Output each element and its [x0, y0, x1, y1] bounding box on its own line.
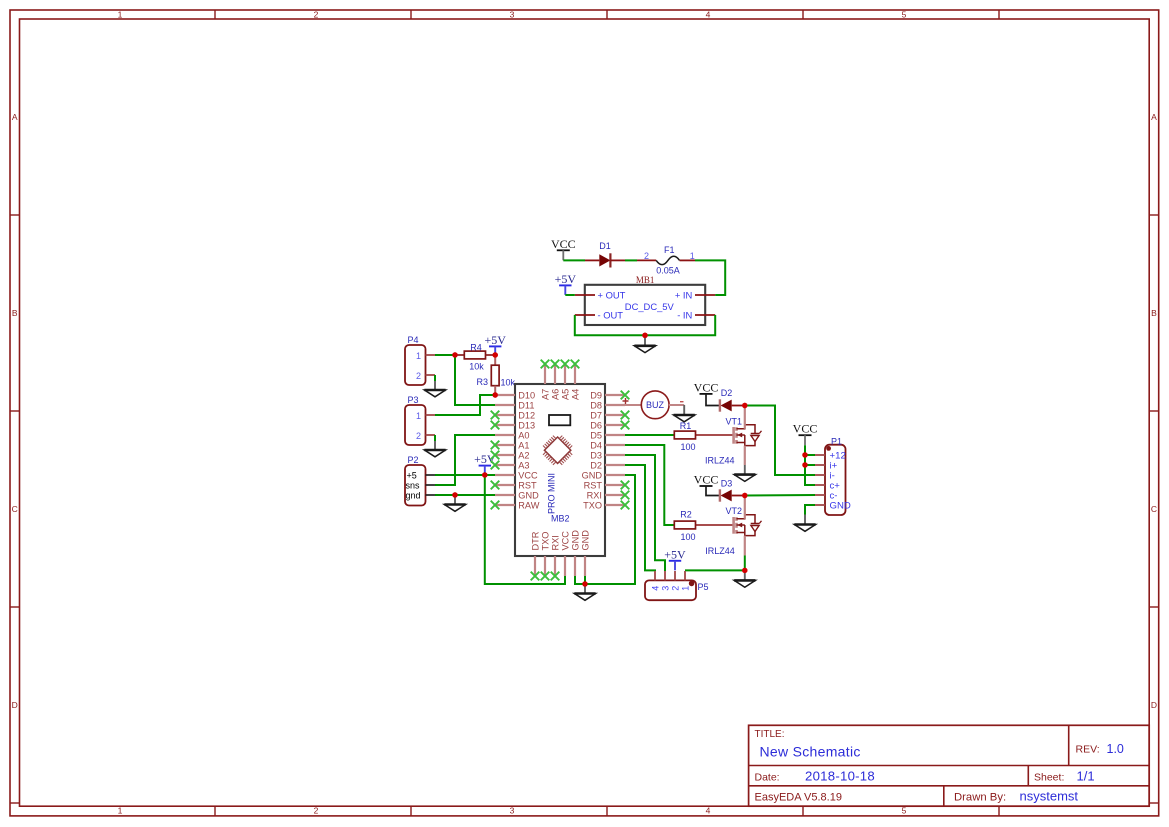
pin D2 of MB2 (right): [590, 461, 625, 471]
frame column numbers top: [118, 10, 907, 20]
svg-text:RST: RST: [518, 481, 537, 491]
ground below VT2 source: [734, 570, 755, 587]
fuse F1: [637, 256, 695, 264]
svg-text:RST: RST: [584, 481, 603, 491]
junction D2 cathode VT1 drain: [742, 403, 747, 408]
svg-text:5: 5: [902, 10, 907, 20]
ground below VT1: [734, 465, 755, 481]
pin +OUT of MB1: [575, 294, 595, 296]
wire VCC node to +12: [805, 454, 815, 456]
svg-text:VCC: VCC: [561, 531, 571, 551]
svg-text:P2: P2: [408, 455, 419, 465]
svg-text:3: 3: [510, 806, 515, 816]
svg-text:TXO: TXO: [583, 501, 602, 511]
VT2 drain lead: [744, 496, 746, 519]
svg-text:VT1: VT1: [726, 416, 743, 426]
svg-text:D8: D8: [590, 401, 602, 411]
svg-text:0.05A: 0.05A: [656, 265, 680, 275]
svg-text:D2: D2: [590, 461, 602, 471]
net flag +5V at R4: [484, 333, 506, 355]
svg-text:IRLZ44: IRLZ44: [705, 456, 735, 466]
minus polarity mark of BUZ: [680, 401, 684, 403]
diode D1: [585, 253, 625, 267]
wire P4 pin 1 to R4 and D11: [435, 354, 455, 356]
net flag VCC at P1: [793, 422, 818, 446]
ground at BUZ: [674, 405, 695, 422]
junction at P1 +12: [802, 452, 807, 457]
pin 2 of P4: [426, 374, 436, 376]
net flag +5V at P2: [474, 452, 496, 474]
no-connect X on MB2 A7: [541, 360, 550, 369]
wire MB2 D5 to R1: [625, 434, 674, 436]
title block border: [749, 725, 1150, 806]
svg-text:+ OUT: + OUT: [598, 289, 626, 300]
svg-text:New Schematic: New Schematic: [760, 744, 861, 760]
no-connect X on MB2 A2: [491, 451, 500, 460]
pin D9 of MB2 (right): [590, 391, 625, 401]
pin A5 of MB2 (top): [561, 364, 571, 400]
wire MB2 D3 to P5 pin 3: [625, 455, 665, 571]
no-connect X on MB2 A6: [551, 360, 560, 369]
pin GND of P1: [815, 501, 851, 512]
wire F1 pin 1 to MB1 +IN: [695, 260, 725, 295]
ground below MB1: [634, 335, 655, 352]
svg-text:A: A: [1151, 112, 1157, 122]
no-connect X on MB2 D7: [621, 411, 630, 420]
pin D13 of MB2 (left): [495, 421, 535, 431]
svg-text:D12: D12: [518, 411, 535, 421]
MB2 inner QFP chip icon: [543, 436, 572, 465]
junction dots overlay: [452, 333, 807, 587]
svg-text:Drawn By:: Drawn By:: [954, 792, 1006, 804]
pin VCC of MB2 (left): [495, 471, 538, 481]
svg-text:RAW: RAW: [518, 501, 539, 511]
svg-text:R2: R2: [680, 509, 692, 519]
connector P1 box: [825, 445, 846, 515]
diode D3: [720, 489, 732, 501]
pin 1 of P4: [426, 354, 436, 356]
pin GND of MB2 (left): [495, 491, 539, 501]
svg-text:D6: D6: [590, 421, 602, 431]
svg-text:2018-10-18: 2018-10-18: [805, 769, 875, 784]
svg-text:10k: 10k: [501, 378, 516, 388]
net flag VCC at D1: [551, 237, 576, 260]
svg-text:R3: R3: [476, 377, 488, 387]
svg-text:D3: D3: [721, 478, 733, 488]
svg-text:D9: D9: [590, 391, 602, 401]
svg-text:Sheet:: Sheet:: [1034, 772, 1064, 784]
pin 4 of P5: [651, 571, 661, 591]
no-connect X on MB2 TXO: [621, 501, 630, 510]
VT2 source lead: [744, 536, 746, 556]
connector P5 box: [645, 580, 696, 600]
svg-text:4: 4: [706, 10, 711, 20]
svg-text:1: 1: [118, 806, 123, 816]
svg-text:VCC: VCC: [793, 422, 818, 436]
svg-text:2: 2: [416, 371, 421, 381]
wire R2 to VT2 gate: [696, 524, 734, 526]
pin 1 of P3: [426, 414, 436, 416]
wire D3 node to P1 c-: [745, 494, 815, 497]
no-connect X on MB2 RST: [491, 481, 500, 490]
pin gnd of P2: [426, 494, 436, 496]
svg-text:A0: A0: [518, 431, 529, 441]
svg-text:D7: D7: [590, 411, 602, 421]
pin 2 of P3: [426, 434, 436, 436]
junction P4 pin 1 node: [452, 352, 457, 357]
svg-text:+5V: +5V: [664, 547, 686, 561]
svg-text:A3: A3: [518, 461, 529, 471]
frame column ticks top: [215, 10, 999, 19]
svg-text:D4: D4: [590, 441, 602, 451]
svg-text:D10: D10: [518, 391, 535, 401]
svg-text:2: 2: [416, 431, 421, 441]
svg-text:1/1: 1/1: [1077, 769, 1095, 784]
module MB2 PRO MINI box: [515, 384, 605, 556]
svg-text:2: 2: [644, 251, 649, 261]
pin RXI of MB2 (right): [587, 491, 625, 501]
wire P1 GND to ground: [805, 505, 815, 515]
svg-text:1: 1: [681, 586, 691, 591]
wire MB2 bottom GND pins to ground node: [575, 576, 585, 584]
wire MB2 D2 to P5 pin 4: [625, 465, 655, 571]
junction R3 bottom at D10: [493, 392, 498, 397]
no-connect X on MB2 bottom TXO: [541, 572, 550, 581]
wire MB1 -IN to ground node: [645, 315, 715, 335]
pin +5 of P2: [426, 474, 436, 476]
svg-text:A6: A6: [551, 389, 561, 400]
svg-text:R4: R4: [470, 342, 482, 352]
pin A3 of MB2 (left): [495, 461, 530, 471]
resistor R4: [455, 351, 495, 359]
wire P3 pin 2 to ground: [434, 435, 436, 441]
net flag +5V at MB1 +OUT: [555, 272, 577, 295]
pin RAW of MB2 (left): [495, 501, 540, 511]
pin D4 of MB2 (right): [590, 441, 625, 451]
svg-text:VCC: VCC: [694, 380, 719, 394]
pin sns of P2: [426, 484, 436, 486]
svg-text:VT2: VT2: [726, 506, 743, 516]
pin GND of MB2 (bottom): [581, 530, 591, 576]
pin DTR of MB2 (bottom): [531, 531, 541, 576]
connector P4 box: [405, 345, 426, 385]
wire MB1 -OUT to ground node: [575, 315, 645, 335]
svg-text:A1: A1: [518, 441, 529, 451]
svg-text:4: 4: [651, 586, 661, 591]
wire P4 pin 2 to ground: [434, 375, 436, 381]
ground at P3 pin 2: [424, 441, 445, 457]
pin RST of MB2 (left): [495, 481, 537, 491]
wire P2 sns to A0: [435, 435, 495, 485]
svg-text:4: 4: [706, 806, 711, 816]
svg-text:P4: P4: [408, 335, 419, 345]
pin i+ of P1: [815, 461, 838, 472]
pin +12 of P1: [815, 451, 846, 462]
svg-text:TXO: TXO: [541, 532, 551, 551]
wire P2 gnd to MB2 GND: [435, 494, 495, 496]
no-connect X on MB2 D6: [621, 421, 630, 430]
svg-text:1: 1: [690, 251, 695, 261]
junction P2 gnd node: [452, 492, 457, 497]
svg-text:D13: D13: [518, 421, 535, 431]
ground at P1 GND: [794, 515, 815, 532]
pin A0 of MB2 (left): [495, 431, 530, 441]
wire R3 and D10 to P3 pin 1: [435, 395, 495, 415]
pin D8 of MB2 (right): [590, 401, 625, 411]
pin c- of P1: [815, 491, 838, 502]
svg-text:100: 100: [680, 532, 695, 542]
no-connect X on MB2 bottom DTR: [531, 572, 540, 581]
pin +IN of MB1: [695, 294, 715, 296]
pin TXO of MB2 (right): [583, 501, 625, 511]
wire node to D11 of MB2: [455, 355, 495, 405]
svg-text:+ IN: + IN: [675, 289, 692, 300]
svg-text:DTR: DTR: [531, 531, 541, 550]
pin A7 of MB2 (top): [541, 364, 551, 400]
pin 1 of P5: [681, 571, 691, 591]
ground at P4 pin 2: [424, 381, 445, 397]
svg-text:A5: A5: [561, 389, 571, 400]
frame column ticks bottom: [215, 806, 999, 816]
svg-text:D: D: [12, 700, 18, 710]
wire MB2 D4 to R2: [625, 445, 674, 525]
svg-text:A7: A7: [541, 389, 551, 400]
wire D1 cathode to F1 pin 2: [625, 259, 637, 261]
no-connect X on MB2 D9: [621, 391, 630, 400]
no-connect X on MB2 A1: [491, 441, 500, 450]
no-connect X on MB2 bottom RXI: [551, 572, 560, 581]
svg-text:3: 3: [661, 586, 671, 591]
svg-text:D5: D5: [590, 431, 602, 441]
VT1 source lead: [744, 446, 746, 465]
svg-text:VCC: VCC: [551, 237, 576, 251]
no-connect X on MB2 A4: [571, 360, 580, 369]
svg-text:D2: D2: [721, 388, 733, 398]
pin 1 marker of P5: [689, 581, 695, 587]
frame column numbers bottom: [118, 806, 907, 816]
resistor R3: [491, 355, 499, 395]
svg-text:F1: F1: [664, 245, 675, 255]
svg-text:1: 1: [416, 351, 421, 361]
pin -IN of MB1: [695, 314, 715, 316]
pin VCC of MB2 (bottom): [561, 531, 571, 576]
svg-text:EasyEDA V5.8.19: EasyEDA V5.8.19: [755, 792, 842, 804]
svg-text:B: B: [12, 308, 18, 318]
net flag VCC at D2: [694, 380, 720, 405]
svg-text:Date:: Date:: [755, 772, 780, 784]
svg-text:GND: GND: [581, 530, 591, 551]
svg-text:GND: GND: [582, 471, 603, 481]
net flag VCC at D3: [694, 472, 720, 495]
svg-text:2: 2: [671, 586, 681, 591]
pin D12 of MB2 (left): [495, 411, 535, 421]
pin A6 of MB2 (top): [551, 364, 561, 400]
frame row letters right: [1151, 112, 1157, 710]
wire P2 +5 to MB2 VCC: [435, 474, 495, 476]
wire VCC to D1 anode: [563, 259, 585, 261]
svg-text:RXI: RXI: [587, 491, 602, 501]
wire R1 to VT1 gate: [696, 434, 734, 436]
svg-text:VCC: VCC: [518, 471, 538, 481]
svg-text:3: 3: [510, 10, 515, 20]
svg-text:+5V: +5V: [555, 272, 577, 286]
svg-text:P5: P5: [698, 582, 709, 592]
diode D2: [720, 399, 732, 411]
svg-text:A4: A4: [571, 389, 581, 400]
svg-text:C: C: [12, 504, 18, 514]
svg-text:1.0: 1.0: [1107, 742, 1124, 756]
pin D3 of MB2 (right): [590, 451, 625, 461]
svg-text:PRO MINI: PRO MINI: [547, 473, 557, 514]
svg-text:2: 2: [314, 806, 319, 816]
svg-text:B: B: [1151, 308, 1157, 318]
svg-text:D: D: [1151, 700, 1157, 710]
svg-text:sns: sns: [406, 481, 421, 491]
pin RST of MB2 (right): [584, 481, 625, 491]
svg-text:1: 1: [118, 10, 123, 20]
pin 2 of P5: [671, 571, 681, 591]
svg-text:DC_DC_5V: DC_DC_5V: [625, 301, 675, 312]
svg-text:MB1: MB1: [636, 275, 655, 285]
pin RXI of MB2 (bottom): [551, 535, 561, 576]
svg-text:REV:: REV:: [1076, 744, 1100, 756]
svg-text:A: A: [12, 112, 18, 122]
junction MB2 bottom ground node: [582, 581, 587, 586]
resistor R1: [674, 431, 695, 439]
pin GND of MB2 (right): [582, 471, 625, 481]
no-connect X on MB2 A3: [491, 461, 500, 470]
svg-text:D11: D11: [518, 401, 534, 411]
pin 3 of P5: [661, 571, 671, 591]
no-connect X on MB2 D13: [491, 421, 500, 430]
wire MB2 right GND to bottom ground node: [585, 475, 635, 584]
wire VT2 source to P5 pin 1 and ground: [685, 556, 745, 571]
svg-text:+5V: +5V: [484, 333, 506, 347]
no-connect X on MB2 A5: [561, 360, 570, 369]
VT1 drain lead: [744, 406, 746, 429]
connector P3 box: [405, 405, 426, 445]
connector P2 box: [405, 465, 426, 506]
pin -OUT of MB1: [575, 314, 595, 316]
transistor VT1: [734, 425, 762, 446]
junction D3 cathode VT2 drain: [742, 493, 747, 498]
svg-text:D1: D1: [599, 241, 611, 251]
svg-text:2: 2: [314, 10, 319, 20]
svg-text:TITLE:: TITLE:: [755, 729, 785, 740]
frame row ticks left: [10, 215, 20, 803]
svg-text:R1: R1: [680, 421, 692, 431]
svg-text:+5: +5: [407, 471, 417, 481]
transistor VT2: [734, 515, 762, 536]
plus polarity mark of BUZ: [623, 398, 629, 404]
pin D10 of MB2 (left): [495, 391, 535, 401]
MB2 inner small rectangle: [549, 415, 570, 425]
wire +5V to MB1 +OUT: [565, 294, 575, 296]
pin D7 of MB2 (right): [590, 411, 625, 421]
pin TXO of MB2 (bottom): [541, 532, 551, 576]
pin A4 of MB2 (top): [571, 364, 581, 400]
svg-text:- IN: - IN: [677, 309, 692, 320]
svg-text:D3: D3: [590, 451, 602, 461]
junction at MB1 ground node: [642, 333, 647, 338]
pin D5 of MB2 (right): [590, 431, 625, 441]
svg-text:P3: P3: [408, 395, 419, 405]
svg-text:C: C: [1151, 504, 1157, 514]
svg-text:GND: GND: [571, 530, 581, 551]
wire D2 node to P1 i-: [745, 406, 815, 476]
module MB1 box: [585, 285, 705, 325]
svg-text:BUZ: BUZ: [646, 400, 665, 410]
svg-text:GND: GND: [830, 501, 851, 512]
pin 1 marker of P1: [826, 446, 831, 451]
svg-text:VCC: VCC: [694, 472, 719, 486]
no-connect X on MB2 RXI: [621, 491, 630, 500]
junction +5V rail at P2: [482, 472, 487, 477]
svg-text:IRLZ44: IRLZ44: [705, 546, 735, 556]
svg-text:nsystemst: nsystemst: [1020, 789, 1079, 804]
svg-text:A2: A2: [518, 451, 529, 461]
junction at P1 i+: [802, 462, 807, 467]
frame row letters left: [12, 112, 18, 710]
svg-text:GND: GND: [518, 491, 539, 501]
svg-text:- OUT: - OUT: [598, 309, 624, 320]
svg-text:100: 100: [680, 442, 695, 452]
resistor R2: [674, 521, 695, 529]
pin A1 of MB2 (left): [495, 441, 530, 451]
svg-text:P1: P1: [831, 436, 842, 446]
net flag +5V at P5 pin 2: [664, 547, 686, 570]
svg-text:MB2: MB2: [551, 513, 570, 523]
buzzer BUZ: [625, 391, 684, 419]
ground at P2 gnd: [444, 495, 465, 511]
no-connect X on MB2 RAW: [491, 501, 500, 510]
svg-text:gnd: gnd: [406, 491, 421, 501]
svg-text:RXI: RXI: [551, 535, 561, 550]
junction R4 +5V node: [493, 352, 498, 357]
no-connect X on MB2 RST: [621, 481, 630, 490]
svg-text:10k: 10k: [469, 362, 484, 372]
pin D11 of MB2 (left): [495, 401, 534, 411]
pin D6 of MB2 (right): [590, 421, 625, 431]
pin GND of MB2 (bottom): [571, 530, 581, 576]
frame row ticks right: [1149, 215, 1159, 803]
wire VCC to P1 +12 i+ c+: [805, 445, 815, 485]
pin i- of P1: [815, 471, 835, 482]
svg-text:+5V: +5V: [474, 452, 496, 466]
wire VCC node to i+: [805, 464, 815, 466]
svg-text:1: 1: [416, 411, 421, 421]
pin A2 of MB2 (left): [495, 451, 530, 461]
junction VT2 source ground node: [742, 568, 747, 573]
wire +5V rail down to MB2 bottom VCC: [485, 475, 565, 584]
ground below MB2: [574, 584, 595, 600]
no-connect X on MB2 D12: [491, 411, 500, 420]
pin c+ of P1: [815, 481, 840, 492]
